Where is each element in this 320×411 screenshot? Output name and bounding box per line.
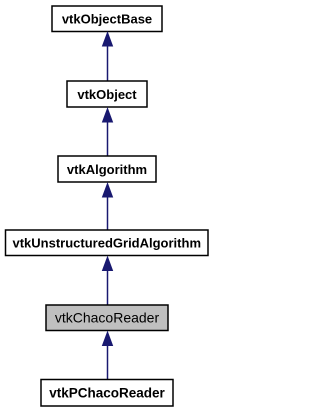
arrow vtkUnstructuredGridAlgorithm to vtkAlgorithm (103, 184, 113, 230)
arrow vtkChacoReader to vtkUnstructuredGridAlgorithm (103, 257, 113, 305)
svg-text:vtkObjectBase: vtkObjectBase (62, 12, 152, 27)
svg-text:vtkAlgorithm: vtkAlgorithm (67, 162, 147, 177)
svg-text:vtkObject: vtkObject (77, 87, 137, 102)
arrow vtkObject to vtkObjectBase (103, 33, 113, 81)
node vtkChacoReader (current class, grey) (46, 305, 168, 331)
svg-text:vtkChacoReader: vtkChacoReader (55, 310, 160, 326)
node vtkAlgorithm (58, 156, 156, 182)
node vtkObject (67, 81, 147, 107)
arrow vtkAlgorithm to vtkObject (103, 109, 113, 156)
arrow vtkPChacoReader to vtkChacoReader (103, 332, 113, 379)
svg-text:vtkPChacoReader: vtkPChacoReader (49, 385, 165, 400)
node vtkUnstructuredGridAlgorithm (6, 230, 209, 256)
svg-text:vtkUnstructuredGridAlgorithm: vtkUnstructuredGridAlgorithm (12, 236, 201, 251)
node vtkObjectBase (52, 6, 162, 32)
node vtkPChacoReader (41, 380, 173, 407)
